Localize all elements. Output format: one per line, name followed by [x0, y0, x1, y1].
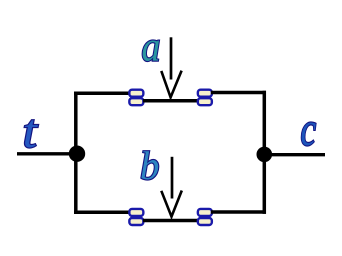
- wire bottom-left segment: [74, 210, 130, 214]
- wire top-left segment: [74, 91, 130, 95]
- actuator arrow a: shaft: [170, 37, 173, 79]
- svg-text:a: a: [142, 22, 161, 69]
- contact bottom-right (lower terminal): [198, 218, 212, 225]
- wire bottom-right segment: [211, 210, 266, 214]
- wire top middle segment: [143, 99, 198, 103]
- svg-text:c: c: [301, 104, 317, 156]
- contact top-right (lower terminal): [198, 98, 212, 105]
- contact bottom-right (upper terminal): [198, 209, 212, 216]
- contact bottom-left (upper terminal): [129, 209, 143, 216]
- wire right stub (node c): [264, 153, 325, 156]
- actuator arrow b: open head: [161, 191, 182, 217]
- contact top-left (upper terminal): [129, 90, 143, 97]
- junction left node: [69, 146, 85, 162]
- contact bottom-left (lower terminal): [129, 218, 143, 225]
- svg-text:t: t: [23, 105, 38, 158]
- wire left stub (node t): [17, 152, 77, 155]
- actuator arrow a: open head: [161, 71, 181, 98]
- wire top-right segment: [211, 91, 266, 95]
- svg-text:b: b: [140, 143, 159, 188]
- junction right node: [257, 147, 273, 163]
- contact top-right (upper terminal): [198, 90, 212, 97]
- contact top-left (lower terminal): [129, 98, 143, 105]
- wire bottom middle segment: [143, 219, 198, 223]
- wire left vertical: [74, 92, 78, 214]
- actuator arrow b: shaft: [171, 157, 174, 199]
- wire right vertical: [263, 91, 267, 214]
